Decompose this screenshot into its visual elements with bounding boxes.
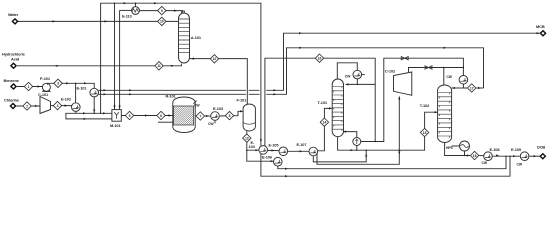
water marker	[11, 18, 18, 25]
E-107 bottom loop to reboiler circuit	[313, 150, 366, 162]
compressor C-101	[40, 97, 51, 114]
T-102 condenser	[459, 76, 468, 85]
E-106 bottom long recycle line	[278, 156, 506, 168]
svg-text:CW: CW	[194, 104, 200, 108]
svg-text:T-101: T-101	[318, 100, 328, 105]
T-101 condenser outlet / reflux header	[356, 79, 358, 84]
pump P-101	[42, 83, 50, 91]
svg-text:E-101: E-101	[77, 85, 88, 90]
M-101 outlet to reactor R-101	[121, 115, 172, 117]
node 14	[320, 118, 328, 126]
exchanger E-109	[520, 152, 529, 161]
svg-text:E-103: E-103	[213, 106, 224, 111]
svg-text:C-101: C-101	[38, 92, 49, 97]
distillation column T-102	[438, 85, 452, 143]
reactor R-101	[173, 97, 195, 133]
reactor CW stub	[194, 101, 197, 104]
valve on line3	[425, 66, 432, 69]
node 3	[54, 79, 62, 87]
exchanger E-108	[484, 152, 493, 161]
exchanger E-102	[72, 103, 81, 112]
node 10	[158, 17, 166, 25]
svg-text:9: 9	[161, 9, 163, 13]
svg-text:E-102: E-102	[61, 96, 72, 101]
svg-text:2: 2	[26, 104, 28, 108]
svg-text:E-107: E-107	[297, 142, 307, 147]
F-101 liquid down through diamond 19 to E-104 / E-106 feeds	[247, 130, 259, 150]
svg-text:17: 17	[470, 86, 474, 90]
svg-text:12: 12	[213, 57, 217, 61]
svg-text:104: 104	[249, 144, 256, 149]
E-101 vapor pair line upper to MCB product	[99, 33, 541, 90]
T-101 condenser	[353, 70, 362, 79]
svg-text:E-105: E-105	[269, 142, 280, 147]
svg-text:P-101: P-101	[40, 76, 51, 81]
svg-text:F-101: F-101	[237, 97, 248, 102]
E-110 hot side line through diamond 9 into A-101 top	[139, 11, 182, 13]
T-102 bottoms to DCB product train	[445, 142, 470, 156]
svg-text:6: 6	[160, 114, 162, 118]
E-101 outlet down to mixer feed header	[93, 97, 95, 113]
reactor CW inlet stub	[158, 121, 173, 123]
svg-text:5: 5	[129, 114, 131, 118]
svg-text:E-106: E-106	[262, 154, 273, 159]
benzene feed line to pump	[17, 86, 42, 88]
svg-text:E-109: E-109	[511, 147, 522, 152]
svg-text:3: 3	[57, 82, 59, 86]
svg-text:CW: CW	[208, 122, 214, 126]
chlorine feed line to C-101	[17, 105, 41, 107]
water feed line	[18, 20, 179, 22]
T-101 bottoms line across to T-102 feed	[338, 137, 425, 151]
node 5	[125, 111, 133, 119]
wire: top recycle line from M-101 junction up and across to E-104	[101, 3, 261, 146]
svg-text:18: 18	[473, 154, 477, 158]
svg-text:13: 13	[245, 136, 249, 140]
flash vessel F-101	[243, 104, 255, 131]
T-102 reflux stub	[452, 87, 464, 89]
svg-text:14: 14	[323, 121, 327, 125]
E-104 bottom long recycle line	[261, 154, 510, 177]
node 2	[23, 102, 31, 110]
HPS reboiler connections	[464, 151, 466, 156]
HCl marker	[10, 62, 17, 69]
node 16	[315, 54, 323, 62]
wire: E-110 left line down to M-101 top inlet 2	[119, 10, 121, 109]
svg-text:A-101: A-101	[191, 35, 202, 40]
compressor C-102	[394, 72, 412, 95]
svg-text:E-110: E-110	[122, 14, 132, 19]
node 12	[210, 55, 218, 63]
reactor outlet to E-103 cooler	[195, 115, 210, 117]
T-102 overhead riser	[443, 68, 445, 86]
svg-text:CW: CW	[446, 75, 452, 79]
E-103 outlet to F-101 flash	[220, 111, 243, 116]
svg-text:C-102: C-102	[385, 69, 396, 74]
C-102 suction from bottoms cross-exchanger line	[317, 96, 399, 164]
chlorine marker	[9, 103, 16, 110]
wire: condenser CW stub	[362, 74, 365, 76]
exchanger E-103 reactor cooler	[211, 112, 220, 121]
svg-text:T-102: T-102	[420, 103, 430, 108]
svg-text:1: 1	[28, 85, 30, 89]
MCB marker	[539, 30, 546, 37]
node 13	[243, 134, 251, 142]
svg-text:7: 7	[199, 114, 201, 118]
svg-text:Acid: Acid	[11, 56, 20, 61]
svg-text:15: 15	[423, 131, 427, 135]
svg-text:10: 10	[160, 20, 164, 24]
distillation column T-101	[332, 79, 343, 137]
exchanger E-107	[309, 147, 318, 156]
svg-text:HPS: HPS	[446, 146, 454, 150]
C-102 discharge line3 with valve	[409, 68, 464, 73]
exchanger E-106	[274, 157, 283, 166]
benzene marker	[10, 83, 17, 90]
exchanger E-101	[90, 88, 99, 97]
node 1	[24, 82, 32, 90]
exchanger E-110 recycle cooler	[132, 7, 140, 15]
node 18	[470, 151, 478, 159]
svg-text:E-108: E-108	[490, 147, 501, 152]
exchanger E-105	[279, 147, 288, 156]
E-101 vapor pair line lower to condenser header	[99, 48, 484, 95]
node 9	[158, 6, 166, 14]
flash vapor line from corner through diamond 16 over T-101	[265, 58, 375, 146]
node 7	[196, 112, 204, 120]
svg-text:M-101: M-101	[110, 123, 121, 128]
svg-text:CW: CW	[345, 74, 351, 78]
T-101 reboiler loop	[343, 132, 357, 138]
svg-text:8: 8	[229, 114, 231, 118]
mixer M-101	[112, 110, 121, 122]
pump discharge line to E-101	[48, 83, 95, 88]
C-101 to E-102 line	[51, 106, 72, 107]
absorber A-101	[179, 11, 190, 63]
mixer feed header into M-101	[66, 113, 112, 119]
valve on line2	[401, 57, 408, 60]
T-101 overhead to condenser	[337, 63, 357, 80]
node 11	[155, 62, 163, 70]
svg-text:CW: CW	[517, 163, 523, 167]
T-102 condenser outlet through diamond 17	[463, 84, 467, 88]
svg-text:MCB: MCB	[536, 24, 545, 29]
hydrochloric acid product line from A-101 bottoms	[17, 64, 181, 66]
branch down to E-102 shell	[75, 83, 77, 103]
E-104/E-105/E-107 train links	[268, 149, 279, 151]
svg-text:R-101: R-101	[166, 94, 177, 99]
F-101 vapor line up and left through diamond into A-101 bottom	[190, 59, 248, 104]
T-101 feed line from bottoms train	[324, 108, 331, 126]
svg-text:11: 11	[157, 64, 161, 68]
exchanger E-104	[259, 146, 268, 155]
svg-text:CW: CW	[482, 161, 488, 165]
node 4	[53, 101, 61, 109]
E-102 bottom outlet	[75, 111, 77, 113]
reboiler vapor to line2 riser	[361, 58, 464, 141]
node 17	[468, 84, 476, 92]
svg-text:DCB: DCB	[537, 145, 545, 150]
node 6	[157, 111, 165, 119]
svg-text:Chlorine: Chlorine	[4, 97, 20, 102]
node 8	[225, 111, 233, 119]
svg-text:Benzene: Benzene	[4, 78, 20, 83]
wire: vertical branch to M-101 top inlet 1	[114, 3, 116, 109]
HPS fired reboiler E-111	[460, 141, 470, 151]
wire: E-110 inlet stub from top line	[135, 3, 137, 6]
T-102 feed riser	[425, 112, 438, 128]
svg-text:Water: Water	[8, 12, 19, 17]
T-101 bottoms pump/reboiler circle	[353, 138, 361, 146]
node 15	[420, 128, 428, 136]
svg-text:16: 16	[318, 57, 322, 61]
svg-text:4: 4	[57, 104, 59, 108]
DCB marker	[539, 153, 546, 160]
E-110 left connection	[120, 9, 132, 11]
